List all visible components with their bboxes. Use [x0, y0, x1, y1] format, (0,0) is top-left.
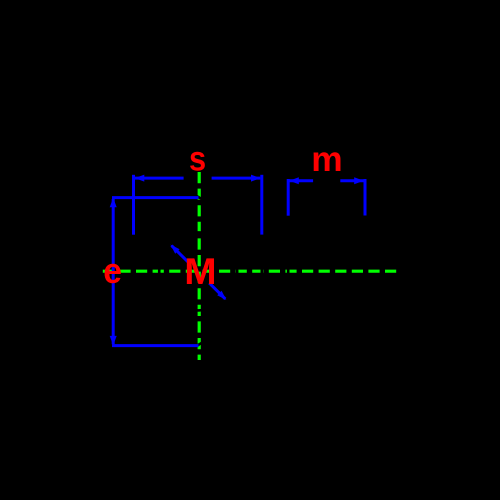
- dimension m: dimension line right segment: [340, 179, 363, 182]
- dimension M (thread diameter): diagonal line lower segment: [209, 283, 225, 299]
- dimension s: dimension line left segment: [135, 177, 184, 180]
- center line vertical (green dashed): [198, 172, 201, 360]
- svg-text:M: M: [184, 252, 216, 293]
- hex nut face outline (black, over center lines): [134, 197, 262, 346]
- dimension e: arrowhead down: [110, 336, 117, 346]
- dimension m: extension line left: [287, 179, 290, 216]
- dimension s: extension line left: [132, 175, 135, 235]
- dimension m: arrowhead left: [289, 177, 299, 184]
- dimension e: arrowhead up: [110, 198, 117, 208]
- svg-text:s: s: [189, 139, 206, 178]
- dimension M: arrowhead lower-right: [217, 291, 226, 300]
- dimension s: arrowhead right: [251, 175, 261, 182]
- center line horizontal (green dashed): [103, 270, 397, 273]
- dimension M (thread diameter): diagonal line upper segment: [172, 246, 189, 263]
- dimension M: arrowhead upper-left: [170, 245, 179, 254]
- dimension s: extension line right: [260, 175, 263, 235]
- dimension s: dimension line right segment: [212, 177, 261, 180]
- dimension m: arrowhead right: [354, 177, 364, 184]
- dimension e: extension line top: [112, 196, 199, 199]
- dimension e: extension line bottom: [112, 344, 199, 347]
- side view outline (black, over center lines): [288, 217, 365, 345]
- dimension m: extension line right: [364, 179, 367, 216]
- dimension m: dimension line left segment: [290, 179, 314, 182]
- dimension e: dimension line vertical: [112, 199, 115, 344]
- svg-text:m: m: [311, 140, 342, 179]
- dimension s: arrowhead left: [135, 175, 145, 182]
- svg-text:e: e: [103, 252, 122, 291]
- thread hole circle (black, over center lines): [159, 232, 237, 310]
